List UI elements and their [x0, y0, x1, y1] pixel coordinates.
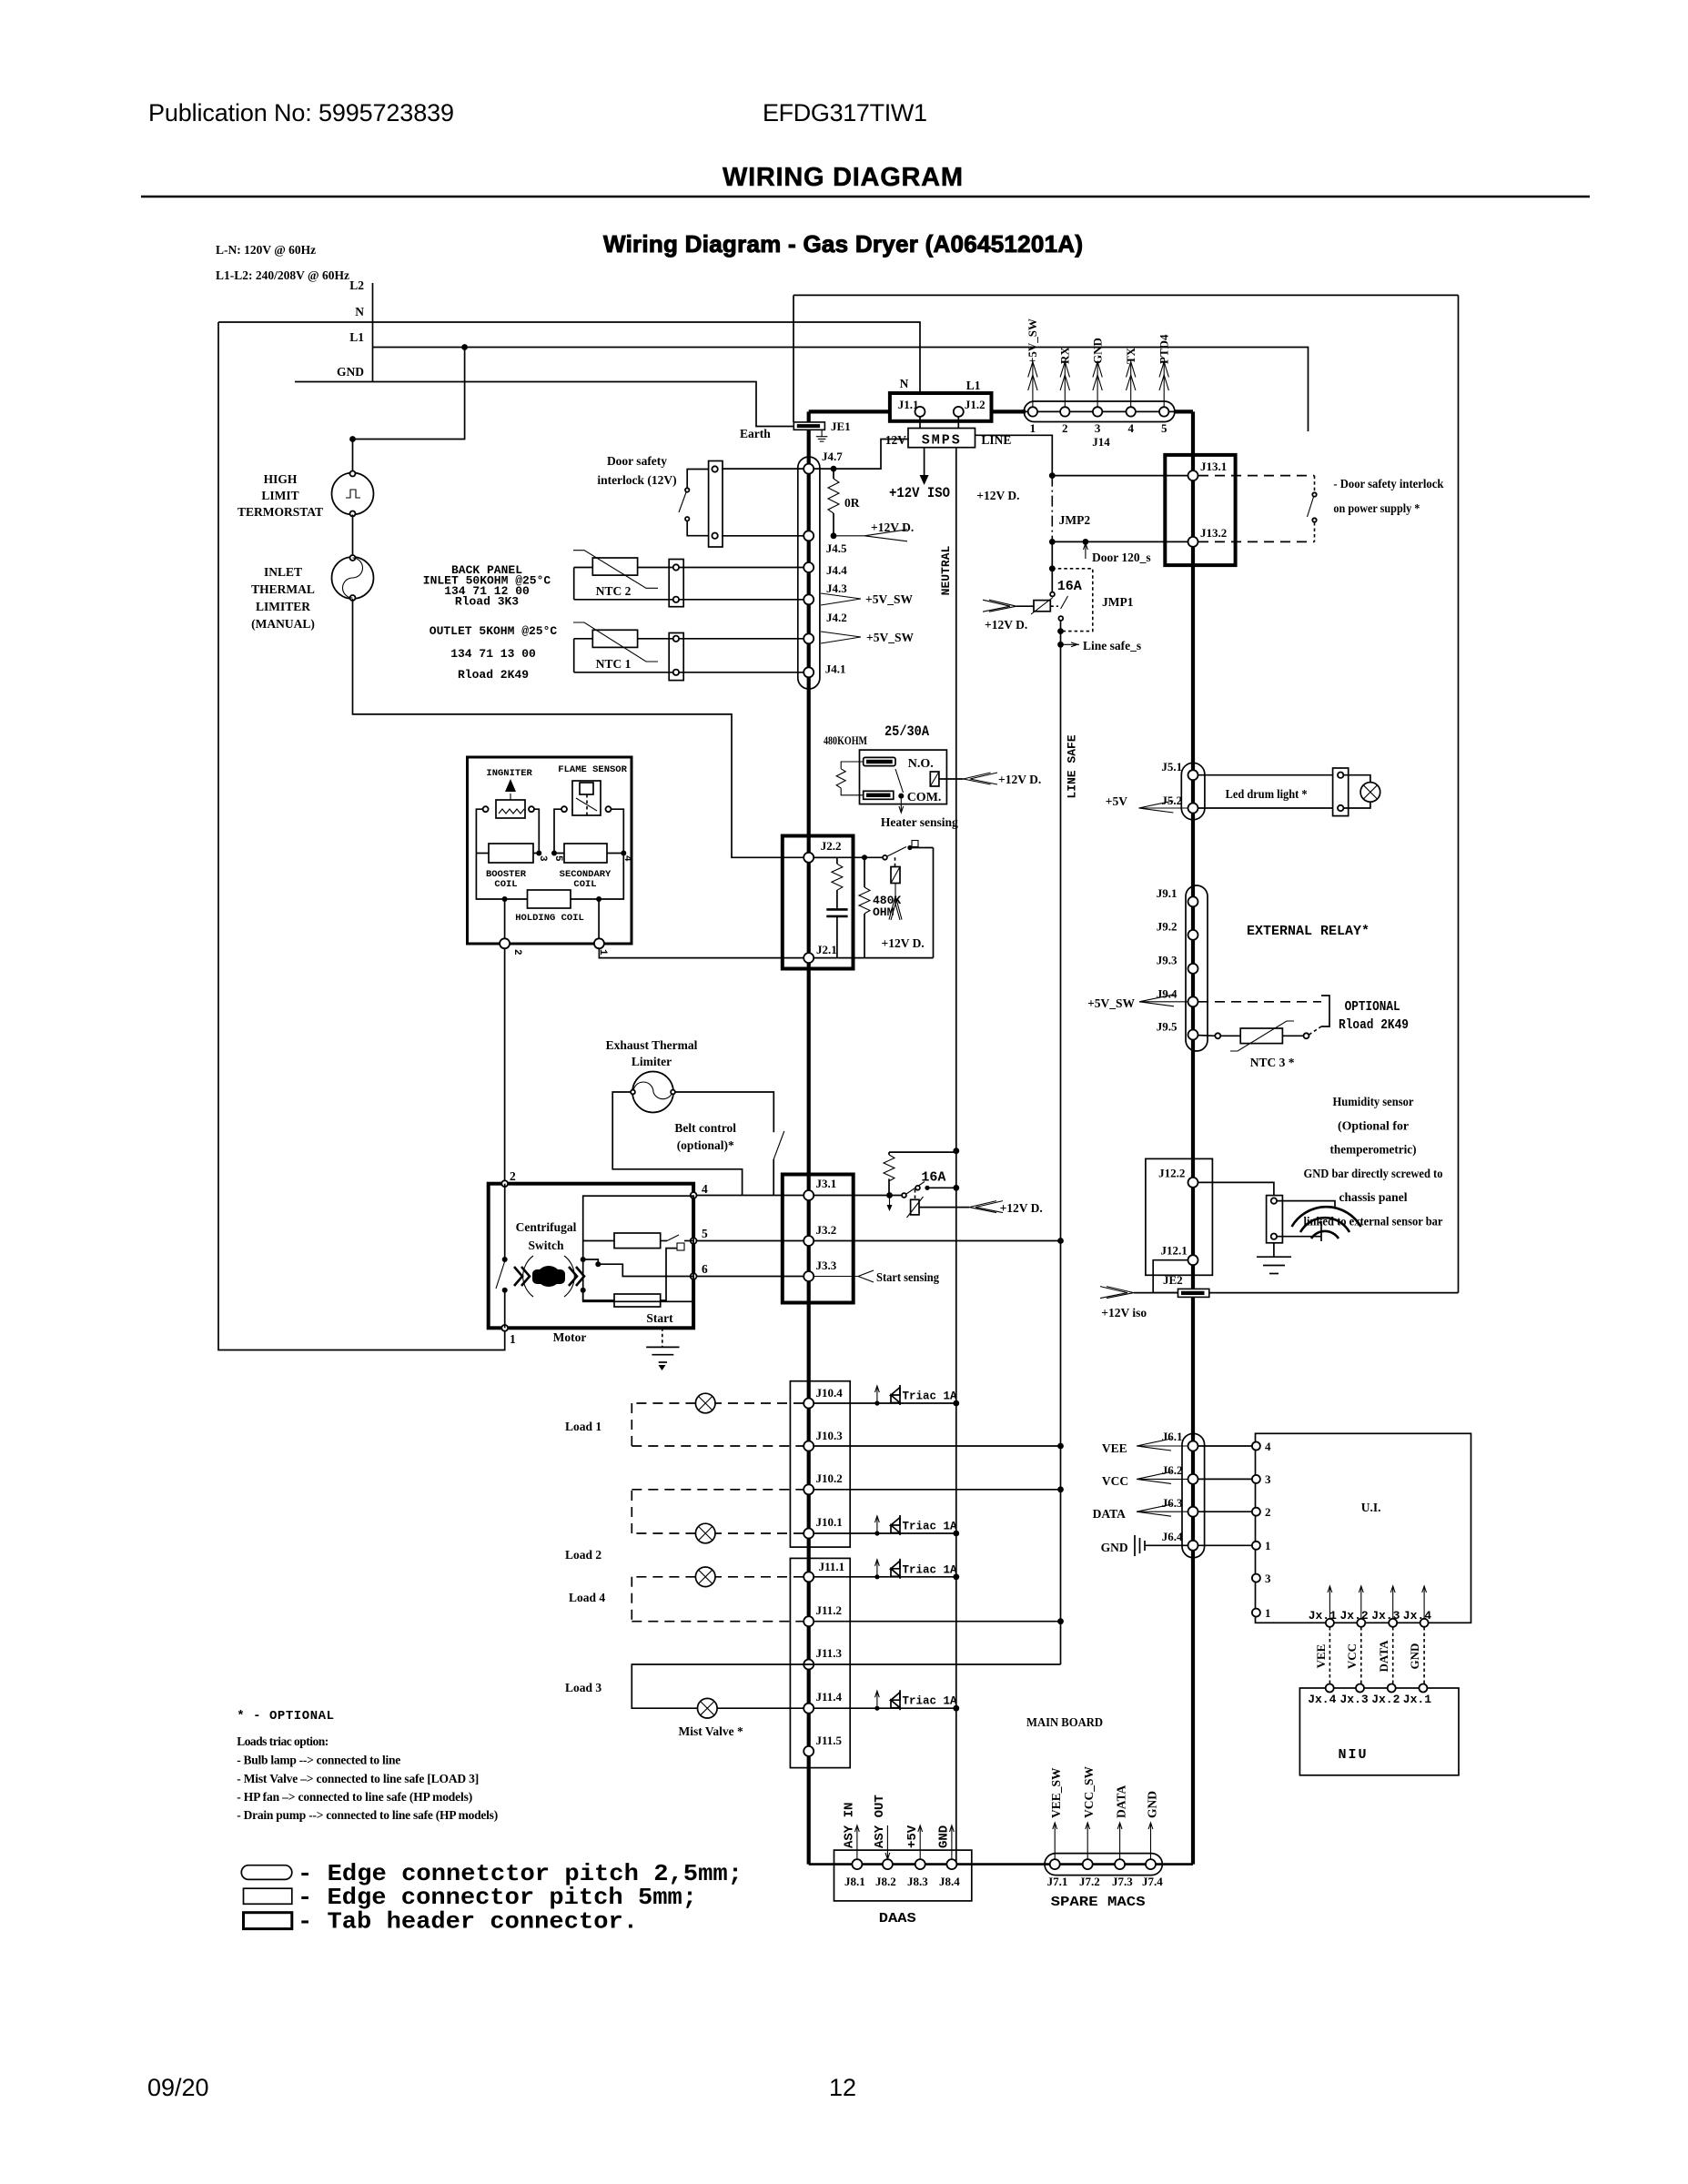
svg-text:J14: J14: [1092, 435, 1110, 449]
svg-text:J10.1: J10.1: [816, 1515, 843, 1529]
svg-text:GND: GND: [1408, 1643, 1421, 1670]
svg-text:J11.5: J11.5: [816, 1734, 843, 1747]
igniter labels: [486, 764, 627, 779]
svg-text:Centrifugal: Centrifugal: [516, 1220, 577, 1234]
connector J4 outline: [798, 457, 820, 689]
wire exhaust limiter right to belt switch: [675, 1092, 773, 1132]
wire igniter pin1 to J2.1: [599, 948, 804, 957]
DAAS box: [834, 1850, 972, 1926]
J7 signal arrows: [1053, 1823, 1153, 1859]
svg-text:+12V iso: +12V iso: [1101, 1306, 1147, 1319]
booster coil: [486, 844, 533, 890]
svg-text:+12V D.: +12V D.: [985, 618, 1027, 632]
svg-text:OUTLET 5KOHM @25°C: OUTLET 5KOHM @25°C: [430, 624, 558, 638]
triac at J10.4: [814, 1385, 959, 1406]
arrow +5V_SW at J9.4: [1087, 995, 1188, 1010]
junction J4.7 resistor tap: [831, 466, 837, 472]
wire igniter pin2 to motor: [504, 948, 506, 1183]
dashed door switch external: [1198, 476, 1317, 542]
svg-text:linked to external sensor bar: linked to external sensor bar: [1304, 1215, 1443, 1228]
svg-text:DATA: DATA: [1115, 1785, 1128, 1818]
16A resistor branch: [814, 1152, 959, 1211]
svg-text:J8.2: J8.2: [875, 1875, 896, 1888]
svg-text:Loads triac option:: Loads triac option:: [237, 1734, 329, 1748]
wire J3.3 to motor pin6: [693, 1276, 804, 1278]
connector J3: [783, 1175, 854, 1303]
connector J13: [1165, 455, 1235, 565]
svg-text:- Mist Valve –> connected to l: - Mist Valve –> connected to line safe […: [237, 1772, 479, 1785]
svg-text:JMP1: JMP1: [1102, 595, 1134, 609]
svg-text:Wiring Diagram - Gas Dryer (A0: Wiring Diagram - Gas Dryer (A06451201A): [603, 230, 1083, 258]
wire line safe vertical: [1060, 632, 1062, 1664]
svg-text:Jx.1: Jx.1: [1403, 1693, 1431, 1706]
svg-text:J6.2: J6.2: [1162, 1463, 1183, 1477]
svg-text:2: 2: [511, 949, 522, 955]
NTC2 text block: [423, 563, 551, 609]
loads triac option notes: [237, 1734, 498, 1822]
heater sensing stub: [881, 794, 958, 829]
motor pin circles: [501, 1180, 696, 1330]
svg-text:J13.1: J13.1: [1200, 460, 1227, 473]
humidity ground: [1257, 1243, 1291, 1274]
svg-text:Rload 2K49: Rload 2K49: [458, 668, 529, 682]
svg-text:134 71 13 00: 134 71 13 00: [450, 647, 536, 661]
svg-text:Limiter: Limiter: [632, 1055, 672, 1068]
svg-text:3: 3: [1265, 1572, 1271, 1585]
humidity sensor symbol: [1277, 1201, 1360, 1241]
svg-text:J4.4: J4.4: [826, 563, 847, 577]
svg-text:J7.4: J7.4: [1142, 1875, 1163, 1888]
svg-text:Heater sensing: Heater sensing: [881, 815, 958, 829]
svg-text:ASY IN: ASY IN: [843, 1803, 857, 1848]
igniter pins: [500, 938, 604, 948]
svg-text:J3.2: J3.2: [816, 1223, 837, 1237]
svg-text:+5V_SW: +5V_SW: [1087, 996, 1135, 1010]
optional Rload bracket: [1198, 996, 1409, 1033]
svg-text:EXTERNAL RELAY*: EXTERNAL RELAY*: [1247, 924, 1370, 939]
arrow VCC: [1102, 1471, 1188, 1488]
wire to J13.1: [1052, 475, 1188, 477]
arrow +5V_SW at J4.3: [821, 592, 913, 606]
header rule: [141, 196, 1590, 198]
connector J9: [1157, 885, 1208, 1051]
svg-text:Triac 1A: Triac 1A: [903, 1563, 958, 1576]
svg-text:DATA: DATA: [1377, 1640, 1390, 1673]
svg-text:interlock (12V): interlock (12V): [597, 473, 676, 487]
load 3 mist valve loop: [565, 1664, 1061, 1738]
svg-text:LIMIT: LIMIT: [261, 489, 298, 502]
junction J13.2 row left: [1049, 539, 1056, 545]
wire to J13.2: [1052, 541, 1188, 542]
svg-text:TERMORSTAT: TERMORSTAT: [238, 505, 323, 519]
svg-text:OPTIONAL: OPTIONAL: [1345, 999, 1400, 1015]
NIU box: [1299, 1688, 1459, 1775]
svg-text:J7.2: J7.2: [1079, 1875, 1100, 1888]
door interlock connector: [709, 461, 723, 548]
J8 signal arrows: [855, 1825, 955, 1859]
UI left pins: [1252, 1440, 1271, 1620]
svg-text:+12V D.: +12V D.: [998, 773, 1041, 786]
svg-text:+5V_SW: +5V_SW: [865, 592, 913, 606]
svg-text:Rload 3K3: Rload 3K3: [455, 595, 519, 609]
wire GND: [295, 382, 793, 427]
svg-text:3: 3: [537, 855, 548, 862]
svg-text:Rload 2K49: Rload 2K49: [1339, 1017, 1409, 1033]
svg-text:J6.1: J6.1: [1162, 1430, 1183, 1443]
svg-text:ASY OUT: ASY OUT: [873, 1795, 887, 1848]
svg-text:J4.5: J4.5: [826, 541, 847, 555]
wire LINE safe top junction: [1049, 472, 1056, 479]
svg-text:PTD4: PTD4: [1157, 334, 1171, 364]
start winding wires: [581, 1249, 693, 1300]
svg-text:5: 5: [702, 1227, 708, 1240]
connector J14: [1024, 401, 1175, 422]
flame sensor element: [561, 781, 612, 815]
SMPS box: [908, 429, 975, 449]
connector J1: [890, 393, 992, 421]
svg-text:3: 3: [1265, 1472, 1271, 1486]
belt control switch: [773, 1131, 784, 1195]
J8 signal labels: [843, 1795, 952, 1848]
connector J6: [1162, 1430, 1205, 1558]
jumper JMP1 dashed box: [1052, 569, 1093, 632]
svg-text:N: N: [355, 305, 364, 318]
svg-text:+12V D.: +12V D.: [976, 489, 1019, 502]
svg-text:GND: GND: [1146, 1791, 1159, 1818]
svg-text:- HP fan –> connected to line: - HP fan –> connected to line safe (HP m…: [237, 1790, 472, 1804]
svg-text:Jx.2: Jx.2: [1340, 1609, 1369, 1623]
led lamp: [1343, 775, 1380, 808]
motor rotor symbol: [514, 1256, 584, 1297]
J4 pins: [804, 464, 814, 678]
J14 signal labels: [1026, 318, 1171, 364]
GND triple bar at J6.4: [1101, 1535, 1188, 1556]
svg-text:Jx.3: Jx.3: [1340, 1693, 1369, 1706]
svg-text:09/20: 09/20: [147, 2074, 209, 2101]
svg-text:J10.4: J10.4: [816, 1386, 844, 1400]
exhaust thermal limiter symbol: [631, 1072, 675, 1113]
svg-text:U.I.: U.I.: [1361, 1501, 1381, 1514]
wire LINE from SMPS: [975, 435, 1053, 475]
svg-text:DATA: DATA: [1093, 1507, 1126, 1521]
junction J11.2 line safe: [1057, 1618, 1064, 1624]
triac at J11.1: [814, 1559, 959, 1580]
svg-text:J5.1: J5.1: [1161, 760, 1182, 773]
wire J4.7 to SMPS 12V: [814, 440, 908, 470]
svg-text:MAIN BOARD: MAIN BOARD: [1026, 1716, 1103, 1730]
svg-text:- Edge connector pitch 5mm;: - Edge connector pitch 5mm;: [298, 1884, 697, 1911]
svg-text:VCC: VCC: [1345, 1643, 1359, 1669]
wire J10.3 to line safe: [814, 1445, 1061, 1447]
svg-text:Humidity sensor: Humidity sensor: [1333, 1095, 1414, 1108]
svg-text:2: 2: [510, 1169, 516, 1183]
svg-text:1: 1: [510, 1332, 516, 1346]
NTC1 text block: [430, 624, 558, 682]
J14 pin numbers: [1030, 421, 1167, 449]
svg-text:L1-L2: 240/208V @ 60Hz: L1-L2: 240/208V @ 60Hz: [216, 268, 349, 282]
svg-text:Load 1: Load 1: [565, 1420, 601, 1433]
NTC2 wires: [574, 568, 804, 600]
connector J11: [790, 1558, 850, 1767]
svg-text:Led drum light *: Led drum light *: [1226, 787, 1308, 801]
svg-text:VCC: VCC: [1102, 1474, 1128, 1488]
secondary coil: [560, 844, 612, 890]
svg-text:WIRING DIAGRAM: WIRING DIAGRAM: [723, 163, 963, 192]
svg-text:Load 3: Load 3: [565, 1681, 601, 1694]
svg-text:(optional)*: (optional)*: [677, 1138, 734, 1152]
thermostat high limit symbol: [332, 471, 374, 517]
junction JMP1 top: [1049, 565, 1056, 571]
thermistor NTC2: [573, 551, 658, 598]
svg-text:N.O.: N.O.: [908, 757, 934, 771]
UI bottom pins: [1309, 1609, 1432, 1627]
legend edge connector 2.5mm: [241, 1860, 743, 1887]
thermistor NTC3: [1198, 1021, 1321, 1069]
wire J11.2 to line safe: [814, 1621, 1061, 1623]
main winding: [614, 1233, 661, 1249]
igniter pin numbers: [511, 855, 632, 955]
J2.2 external branch: [814, 841, 934, 958]
svg-text:J6.4: J6.4: [1162, 1530, 1183, 1543]
svg-text:Jx.1: Jx.1: [1309, 1609, 1337, 1623]
wire neutral feeder to motor: [218, 322, 505, 1350]
svg-text:Door safety: Door safety: [607, 454, 667, 468]
legend edge connector 5mm: [244, 1884, 698, 1911]
led drum light wires: [1198, 775, 1333, 808]
arrow +5V at J5.2: [1106, 794, 1188, 813]
main bus top left segment: [809, 409, 890, 413]
svg-text:1: 1: [1265, 1606, 1271, 1620]
start sensing arrow: [814, 1270, 939, 1284]
svg-text:Start: Start: [646, 1311, 673, 1325]
svg-text:+5V_SW: +5V_SW: [866, 631, 914, 644]
svg-text:GND: GND: [1091, 338, 1105, 364]
svg-text:Start sensing: Start sensing: [876, 1270, 939, 1284]
heater relay box: [836, 750, 946, 804]
NTC2 connector: [669, 560, 683, 607]
svg-text:J13.2: J13.2: [1200, 526, 1227, 540]
svg-text:Jx.2: Jx.2: [1371, 1693, 1400, 1706]
wire J12.2 to humidity connector: [1198, 1182, 1274, 1195]
igniter box: [468, 757, 632, 944]
svg-text:+12V D.: +12V D.: [882, 936, 925, 950]
svg-text:+12V ISO: +12V ISO: [889, 485, 950, 501]
svg-text:HOLDING COIL: HOLDING COIL: [515, 913, 584, 924]
wire inlet limiter to J2.2: [353, 599, 804, 857]
svg-text:on power supply *: on power supply *: [1333, 501, 1420, 515]
svg-text:J2.2: J2.2: [821, 839, 842, 853]
junction L1 tap: [461, 344, 468, 350]
svg-text:+5V: +5V: [905, 1825, 920, 1848]
svg-text:HIGH: HIGH: [264, 472, 298, 486]
junction J10.2 line safe: [1057, 1486, 1064, 1492]
junction J3.2 line safe: [1057, 1238, 1064, 1244]
main winding wires: [583, 1235, 693, 1250]
wires J6 to UI: [1198, 1446, 1252, 1545]
svg-text:Triac 1A: Triac 1A: [903, 1695, 958, 1708]
svg-text:J8.4: J8.4: [939, 1875, 960, 1888]
junction line safe_s: [1057, 642, 1064, 648]
svg-text:Jx.3: Jx.3: [1371, 1609, 1400, 1623]
motor ground: [646, 1328, 679, 1370]
svg-text:GND: GND: [937, 1825, 952, 1848]
wire relay coil to +12V D.: [939, 773, 1041, 786]
svg-text:INLET: INLET: [264, 565, 302, 579]
svg-text:chassis panel: chassis panel: [1339, 1190, 1408, 1204]
svg-text:Earth: Earth: [740, 427, 771, 440]
triac at J11.4: [814, 1690, 959, 1711]
main bus bottom horizontal: [809, 1863, 1193, 1865]
jumper JMP2 dash-dot: [1051, 476, 1053, 542]
ground symbol at JE1: [816, 430, 828, 441]
svg-text:J9.3: J9.3: [1157, 954, 1178, 967]
wire line safe down: [1051, 541, 1053, 568]
svg-text:L1: L1: [966, 379, 981, 392]
wire J3.2 to motor pin5: [693, 1240, 804, 1242]
svg-text:J7.1: J7.1: [1047, 1875, 1068, 1888]
svg-text:SPARE MACS: SPARE MACS: [1051, 1895, 1146, 1910]
svg-text:Switch: Switch: [528, 1239, 563, 1252]
inlet thermal limiter symbol: [332, 555, 374, 601]
svg-text:GND: GND: [337, 365, 364, 379]
svg-text:J11.3: J11.3: [816, 1646, 843, 1660]
svg-text:+5V: +5V: [1106, 794, 1127, 808]
load 1 lamp loop: [565, 1393, 804, 1446]
svg-text:J9.1: J9.1: [1157, 886, 1178, 900]
wire thermostat to inlet limiter: [352, 515, 354, 558]
svg-text:12: 12: [829, 2074, 856, 2101]
J14 signal arrows: [1028, 362, 1169, 408]
svg-text:25/30A: 25/30A: [884, 723, 929, 740]
svg-text:J11.1: J11.1: [819, 1560, 845, 1573]
connector J2: [783, 836, 854, 969]
svg-text:COIL: COIL: [573, 879, 596, 890]
svg-text:J3.1: J3.1: [816, 1177, 837, 1190]
svg-text:(MANUAL): (MANUAL): [251, 617, 315, 631]
svg-text:SMPS: SMPS: [922, 433, 962, 449]
wire N: [218, 322, 920, 393]
svg-text:J1.2: J1.2: [965, 398, 986, 411]
motor inner box: [583, 1196, 693, 1301]
arrow DATA: [1093, 1504, 1188, 1521]
svg-text:4: 4: [622, 855, 632, 862]
fuse 16A with feed: [983, 569, 1068, 632]
centrifugal switch contacts: [496, 1184, 508, 1329]
svg-text:THERMAL: THERMAL: [251, 582, 315, 596]
junction J10.3 line safe: [1057, 1443, 1064, 1450]
junction 0R to J4.5: [831, 532, 837, 539]
svg-text:3: 3: [1095, 421, 1101, 435]
NTC1 wires: [574, 639, 804, 672]
svg-text:1: 1: [1265, 1539, 1271, 1552]
svg-text:J8.1: J8.1: [844, 1875, 865, 1888]
svg-text:Triac 1A: Triac 1A: [903, 1521, 958, 1533]
door safety interlock label: [597, 454, 676, 487]
wire J1.1 to SMPS: [919, 417, 921, 429]
centrifugal switch label: [516, 1220, 577, 1252]
svg-text:* - OPTIONAL: * - OPTIONAL: [237, 1709, 335, 1724]
svg-text:2: 2: [1265, 1505, 1271, 1519]
connector J10: [790, 1381, 850, 1547]
wire J1.2 to SMPS: [957, 417, 959, 429]
inlet thermal limiter label: [251, 565, 315, 631]
svg-text:J10.3: J10.3: [816, 1429, 844, 1442]
svg-text:J10.2: J10.2: [816, 1471, 843, 1485]
UI to NIU dashed links: [1314, 1627, 1424, 1684]
svg-text:- Door safety interlock: - Door safety interlock: [1333, 477, 1443, 490]
junction neutral 16A tap: [953, 1148, 959, 1154]
svg-text:J8.3: J8.3: [907, 1875, 928, 1888]
SMPS labels: [885, 433, 1012, 447]
start winding: [614, 1294, 661, 1307]
svg-text:- Drain pump --> connected to: - Drain pump --> connected to line safe …: [237, 1808, 498, 1822]
igniter internal wires: [476, 809, 626, 938]
NEUTRAL vertical wire: [955, 448, 957, 1865]
load 4 lamp loop: [569, 1567, 804, 1622]
J8 pins: [844, 1859, 960, 1888]
arrow +12V D. at J4.5: [834, 521, 914, 541]
svg-text:J12.2: J12.2: [1158, 1167, 1185, 1180]
svg-text:J4.3: J4.3: [826, 581, 847, 595]
svg-text:NTC 2: NTC 2: [596, 584, 632, 598]
svg-text:+12V D.: +12V D.: [1000, 1201, 1043, 1215]
main bus right vertical: [1191, 411, 1195, 1864]
svg-text:Jx.4: Jx.4: [1308, 1693, 1336, 1706]
svg-text:J4.2: J4.2: [826, 611, 847, 624]
power cord vertical: [372, 283, 374, 382]
svg-text:4: 4: [702, 1182, 708, 1196]
svg-text:L2: L2: [349, 278, 364, 292]
svg-text:COIL: COIL: [494, 879, 517, 890]
wire interlock to J4.5: [722, 535, 804, 537]
svg-text:2: 2: [1062, 421, 1068, 435]
svg-text:LIMITER: LIMITER: [256, 600, 310, 613]
svg-text:J11.4: J11.4: [816, 1690, 843, 1704]
wire J12.1 to JE2: [1153, 1260, 1188, 1293]
svg-text:RX: RX: [1058, 347, 1072, 364]
svg-text:Exhaust Thermal: Exhaust Thermal: [606, 1038, 698, 1052]
svg-text:VEE: VEE: [1102, 1441, 1127, 1455]
wire J10.2 to line safe: [814, 1489, 1061, 1491]
wire SMPS 12V iso arrow: [920, 448, 929, 485]
svg-text:Line safe_s: Line safe_s: [1083, 639, 1141, 652]
humidity sensor note: [1304, 1095, 1443, 1228]
svg-text:J7.3: J7.3: [1112, 1875, 1133, 1888]
svg-text:INGNITER: INGNITER: [486, 768, 532, 779]
svg-text:- Bulb lamp --> connected to l: - Bulb lamp --> connected to line: [237, 1754, 400, 1767]
svg-text:+5V_SW: +5V_SW: [1026, 318, 1039, 364]
connector J1 labels: [898, 377, 986, 411]
wire L1: [373, 348, 1309, 432]
NIU top pins: [1308, 1684, 1431, 1707]
svg-text:J9.4: J9.4: [1157, 986, 1178, 1000]
svg-text:480KOHM: 480KOHM: [824, 733, 867, 747]
arrow +12V iso: [1100, 1287, 1147, 1319]
svg-text:J9.5: J9.5: [1157, 1020, 1178, 1034]
led connector: [1333, 768, 1349, 816]
igniter element: [483, 779, 534, 818]
arrow +5V_SW at J4.2: [821, 631, 914, 644]
svg-text:J9.2: J9.2: [1157, 920, 1178, 934]
resistor 0R: [828, 469, 860, 536]
svg-text:5: 5: [552, 855, 563, 862]
svg-text:0R: 0R: [844, 496, 860, 510]
svg-text:J4.1: J4.1: [825, 662, 846, 676]
svg-text:NIU: NIU: [1339, 1747, 1369, 1763]
triac at J10.1: [814, 1515, 959, 1536]
load 2 lamp loop: [565, 1490, 804, 1562]
svg-text:16A: 16A: [1057, 579, 1082, 594]
